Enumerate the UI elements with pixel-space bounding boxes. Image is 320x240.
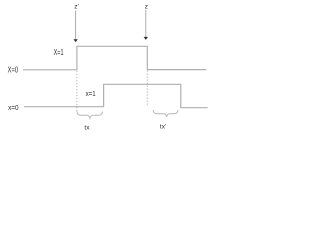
brace tx (77, 112, 103, 119)
dotted line at X rising edge (76, 71, 78, 112)
dotted line at X falling edge (146, 71, 148, 106)
svg-text:tx’: tx’ (160, 124, 167, 131)
svg-text:x=1: x=1 (86, 89, 96, 98)
svg-text:z’: z’ (74, 4, 79, 11)
svg-text:X=0: X=0 (8, 65, 19, 74)
wire waveform x (24, 84, 208, 107)
brace tx' (153, 110, 178, 117)
arrow z' (73, 11, 77, 43)
svg-text:z: z (145, 3, 148, 10)
wire waveform X (23, 46, 206, 70)
svg-text:x=0: x=0 (8, 103, 19, 112)
svg-text:X=1: X=1 (54, 48, 64, 57)
svg-text:tx: tx (84, 125, 90, 132)
arrow z (144, 10, 148, 40)
